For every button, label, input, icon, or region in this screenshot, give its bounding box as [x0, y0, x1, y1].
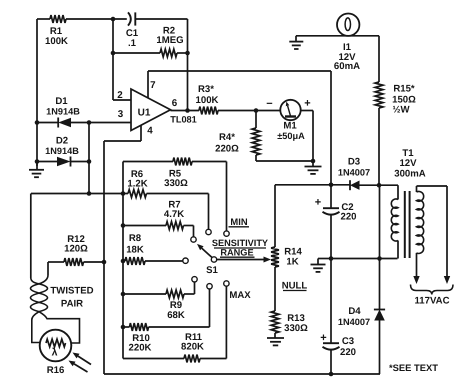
- brace 117VAC: [411, 285, 454, 307]
- wire inverting-input bus: [88, 123, 90, 194]
- capacitor C3: [320, 259, 356, 375]
- wire +12 rail: [275, 184, 350, 186]
- wire left rail vertical: [36, 19, 38, 166]
- svg-text:60mA: 60mA: [334, 61, 360, 72]
- lamp I1: [334, 14, 360, 73]
- svg-text:+: +: [315, 197, 321, 209]
- switch contact 6: [207, 284, 212, 289]
- wire sensitivity bus: [122, 162, 124, 359]
- wire meter plus side: [301, 111, 313, 162]
- svg-text:TWISTED: TWISTED: [50, 286, 93, 297]
- wire lamp row: [296, 35, 379, 37]
- switch contact 3: [191, 237, 196, 242]
- wire pin7 to +V rail: [148, 71, 331, 99]
- svg-text:1MEG: 1MEG: [156, 35, 183, 46]
- resistor R3: [196, 84, 281, 114]
- svg-text:100K: 100K: [45, 36, 68, 47]
- svg-text:2: 2: [117, 90, 123, 101]
- svg-text:220Ω: 220Ω: [215, 144, 239, 155]
- svg-text:R8: R8: [129, 233, 142, 244]
- node R6 left junction: [121, 191, 126, 196]
- wire secondary lead left arrow: [413, 253, 419, 284]
- svg-text:PAIR: PAIR: [61, 299, 83, 310]
- svg-text:300mA: 300mA: [394, 169, 426, 180]
- node junction at C1 left / pin2 branch: [111, 17, 116, 22]
- transformer T1 core: [405, 191, 410, 258]
- twisted pair: [31, 275, 94, 343]
- ground symbol meter: [305, 161, 322, 174]
- svg-text:C3: C3: [342, 336, 354, 347]
- node D1 right junction: [87, 120, 92, 125]
- svg-text:λ: λ: [52, 347, 58, 359]
- node D1 left junction: [35, 120, 40, 125]
- label SEE TEXT: [389, 362, 438, 373]
- ground symbol lamp: [289, 36, 303, 49]
- svg-text:D2: D2: [56, 136, 68, 147]
- op-amp U1: [117, 80, 197, 137]
- svg-text:RANGE: RANGE: [220, 247, 253, 257]
- resistor R5 row: [123, 158, 227, 231]
- svg-text:117VAC: 117VAC: [414, 296, 449, 307]
- resistor R4: [215, 111, 260, 162]
- label MIN: [229, 216, 250, 227]
- diode D2: [37, 136, 89, 167]
- node R2 left junction: [111, 51, 116, 56]
- node R10 left junction: [121, 325, 126, 330]
- svg-text:+: +: [304, 98, 310, 110]
- wire pin4 to -V rail: [104, 125, 141, 374]
- svg-text:D3: D3: [348, 157, 360, 168]
- resistor R6: [127, 169, 208, 229]
- wire winding node down to D4: [379, 185, 381, 309]
- wire bottom -V rail: [104, 373, 380, 375]
- photocell R16: [40, 330, 72, 376]
- svg-text:330Ω: 330Ω: [284, 323, 308, 334]
- wire bridge row: [31, 193, 128, 195]
- resistor R15: [375, 82, 416, 116]
- potentiometer R14: [271, 246, 302, 311]
- svg-text:1N914B: 1N914B: [45, 146, 79, 156]
- capacitor C1: [126, 12, 139, 49]
- svg-text:1N914B: 1N914B: [46, 107, 80, 117]
- resistor R13: [271, 311, 308, 338]
- wiper arrow R14: [217, 257, 271, 263]
- wire C1 to feedback corner: [135, 18, 187, 20]
- light arrow 1: [73, 353, 92, 365]
- label NULL: [282, 281, 308, 292]
- node C3 bottom junction: [329, 372, 334, 377]
- svg-text:100K: 100K: [196, 95, 219, 106]
- resistor R1: [45, 15, 68, 47]
- light arrow 2: [69, 361, 88, 373]
- svg-text:+: +: [320, 332, 326, 344]
- svg-text:R4*: R4*: [219, 132, 235, 143]
- resistor R11: [123, 286, 227, 362]
- label MAX: [229, 290, 251, 301]
- svg-text:−: −: [266, 98, 272, 110]
- ground symbol C2: [311, 265, 326, 272]
- meter M1: [266, 98, 310, 142]
- svg-text:4: 4: [147, 126, 153, 137]
- svg-text:3: 3: [118, 109, 124, 120]
- switch S1 common: [206, 257, 218, 276]
- svg-text:120Ω: 120Ω: [64, 244, 88, 255]
- switch contact MAX: [224, 281, 229, 286]
- wire C2 node to transformer: [331, 258, 398, 260]
- diode D1: [37, 96, 131, 128]
- wire left rail top segment: [37, 18, 50, 20]
- svg-text:1.2K: 1.2K: [127, 179, 147, 190]
- svg-text:M1: M1: [283, 121, 297, 132]
- wire op-amp output: [171, 110, 200, 112]
- svg-text:MAX: MAX: [229, 290, 251, 301]
- svg-text:R15*: R15*: [393, 84, 415, 95]
- diode D4: [338, 306, 385, 374]
- node C2 bottom junction: [329, 256, 334, 261]
- switch S1 wiper arm: [197, 244, 212, 258]
- node R8 left junction: [121, 259, 126, 264]
- svg-text:U1: U1: [138, 108, 151, 119]
- svg-text:820K: 820K: [181, 342, 204, 353]
- wire twisted pair right lead: [47, 262, 49, 275]
- diode D3: [338, 157, 398, 191]
- resistor R7: [123, 200, 194, 237]
- svg-text:TL081: TL081: [170, 115, 197, 125]
- wire R15 to D3 node: [378, 108, 380, 186]
- switch contact 4: [183, 258, 188, 263]
- svg-text:220: 220: [340, 347, 356, 358]
- svg-text:MIN: MIN: [230, 216, 247, 227]
- wire pin2 branch vertical: [113, 19, 131, 100]
- switch contact 2: [206, 229, 211, 234]
- svg-text:68K: 68K: [167, 310, 185, 321]
- svg-text:220K: 220K: [129, 343, 152, 354]
- svg-text:R3*: R3*: [198, 84, 214, 95]
- node transformer bottom junction: [377, 256, 382, 261]
- svg-text:±50μA: ±50μA: [277, 131, 305, 141]
- resistor R8: [125, 233, 183, 265]
- svg-text:1N4007: 1N4007: [338, 317, 370, 327]
- svg-text:4.7K: 4.7K: [164, 209, 184, 220]
- node D3 anode junction: [377, 183, 382, 188]
- svg-text:330Ω: 330Ω: [164, 178, 188, 189]
- node C2 top junction: [329, 183, 334, 188]
- wire feedback vertical: [187, 19, 189, 111]
- wire lamp to R15: [378, 36, 380, 82]
- node D2 left junction: [35, 159, 40, 164]
- node meter ground junction: [311, 159, 316, 164]
- resistor R10: [123, 289, 210, 354]
- wire +V down to C2 node: [330, 71, 332, 185]
- node R9 left junction: [121, 292, 126, 297]
- node R4 top junction: [254, 108, 259, 113]
- node R2 right junction: [185, 51, 190, 56]
- svg-text:18K: 18K: [126, 245, 144, 256]
- switch contact MIN: [224, 231, 229, 236]
- svg-text:D1: D1: [55, 96, 68, 107]
- node D2 right junction: [87, 159, 92, 164]
- transformer T1 secondary winding: [417, 186, 448, 253]
- svg-text:R16: R16: [47, 365, 65, 376]
- transformer T1 primary winding: [391, 148, 425, 259]
- svg-text:.1: .1: [128, 38, 137, 49]
- resistor R2: [113, 26, 188, 57]
- wire C2 ground tap: [318, 259, 331, 265]
- switch contact 5: [192, 277, 197, 282]
- wire twisted pair left lead: [30, 194, 32, 279]
- svg-text:½W: ½W: [392, 105, 410, 116]
- svg-text:12V: 12V: [399, 158, 417, 169]
- svg-text:1K: 1K: [286, 257, 298, 268]
- wire +12 rail to R14: [274, 185, 276, 246]
- svg-text:S1: S1: [206, 265, 218, 276]
- resistor R12: [48, 234, 104, 266]
- svg-text:*SEE TEXT: *SEE TEXT: [389, 362, 438, 373]
- svg-text:7: 7: [150, 80, 156, 91]
- svg-text:1N4007: 1N4007: [338, 168, 370, 178]
- ground symbol left rail: [29, 162, 44, 178]
- node R12 junction on -V rail: [102, 260, 107, 265]
- ground symbol R13: [267, 338, 284, 345]
- node feedback junction: [185, 108, 190, 113]
- wire R4 bottom to meter ground: [256, 160, 313, 162]
- node inverting bus junction: [87, 191, 92, 196]
- svg-text:220: 220: [340, 212, 356, 223]
- label SENSITIVITY RANGE: [212, 238, 268, 257]
- wire secondary lead right arrow: [444, 186, 450, 284]
- node R7 left junction: [121, 223, 126, 228]
- svg-text:6: 6: [172, 98, 178, 109]
- svg-text:D4: D4: [348, 306, 361, 317]
- wire R1 to C1: [66, 18, 127, 20]
- resistor R9: [123, 282, 195, 321]
- capacitor C2: [315, 185, 357, 259]
